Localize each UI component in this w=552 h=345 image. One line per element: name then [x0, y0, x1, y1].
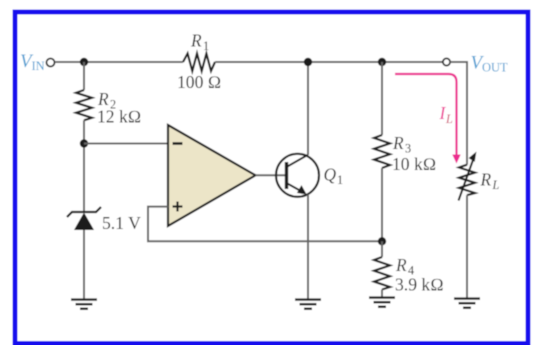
- wire emitter: [307, 195, 309, 299]
- resistor R1: [183, 54, 215, 72]
- wire B to op-amp inverting input: [84, 143, 168, 145]
- wire terminal to RL corner: [450, 62, 467, 165]
- op-amp U1: [168, 125, 256, 226]
- ground RL: [454, 299, 480, 308]
- resistor R2: [76, 90, 92, 120]
- wire RL to ground: [466, 195, 468, 298]
- ground zener: [71, 300, 97, 309]
- node VIN terminal: [47, 59, 55, 67]
- wire op-amp noninverting feedback: [148, 207, 382, 242]
- wire E to R4: [381, 241, 383, 257]
- resistor R4: [374, 257, 390, 290]
- svg-text:100 Ω: 100 Ω: [177, 72, 221, 92]
- wire R3 to node E: [381, 168, 383, 241]
- svg-text:R: R: [190, 31, 202, 51]
- svg-text:L: L: [445, 112, 453, 126]
- svg-text:R: R: [480, 170, 492, 190]
- resistor R3: [374, 135, 390, 168]
- transistor Q1: [276, 154, 319, 197]
- wire R2 to zener: [83, 120, 85, 212]
- wire zener to ground: [83, 230, 85, 299]
- node junction dot D: [378, 58, 386, 66]
- svg-text:R: R: [395, 255, 407, 275]
- node junction dot B: [80, 139, 88, 147]
- svg-text:1: 1: [203, 39, 209, 53]
- wire top-left: [55, 61, 183, 63]
- node junction dot E: [378, 237, 386, 245]
- wire collector: [307, 62, 309, 155]
- svg-text:OUT: OUT: [482, 61, 508, 75]
- svg-text:R: R: [392, 133, 404, 153]
- wire op-amp output to base: [256, 174, 287, 176]
- wire top-middle: [215, 61, 443, 63]
- svg-text:3.9 kΩ: 3.9 kΩ: [395, 275, 444, 295]
- ground R4: [369, 298, 395, 307]
- zener diode D1 5.1V: [67, 207, 101, 217]
- current IL arrow: [395, 74, 457, 156]
- svg-text:1: 1: [337, 173, 343, 187]
- node junction dot A: [80, 58, 88, 66]
- wire D down to R3: [381, 62, 383, 135]
- svg-text:5.1 V: 5.1 V: [102, 213, 141, 233]
- svg-text:12 kΩ: 12 kΩ: [97, 107, 141, 127]
- node junction dot C: [304, 58, 312, 66]
- node VOUT terminal: [443, 58, 450, 65]
- ground emitter: [295, 300, 321, 309]
- svg-text:Q: Q: [324, 165, 337, 185]
- resistor RL: [459, 165, 475, 196]
- svg-text:L: L: [492, 178, 500, 192]
- svg-text:10 kΩ: 10 kΩ: [392, 154, 436, 174]
- svg-text:IN: IN: [32, 59, 45, 73]
- wire A down to R2: [83, 62, 85, 90]
- wire R4 to ground: [381, 290, 383, 298]
